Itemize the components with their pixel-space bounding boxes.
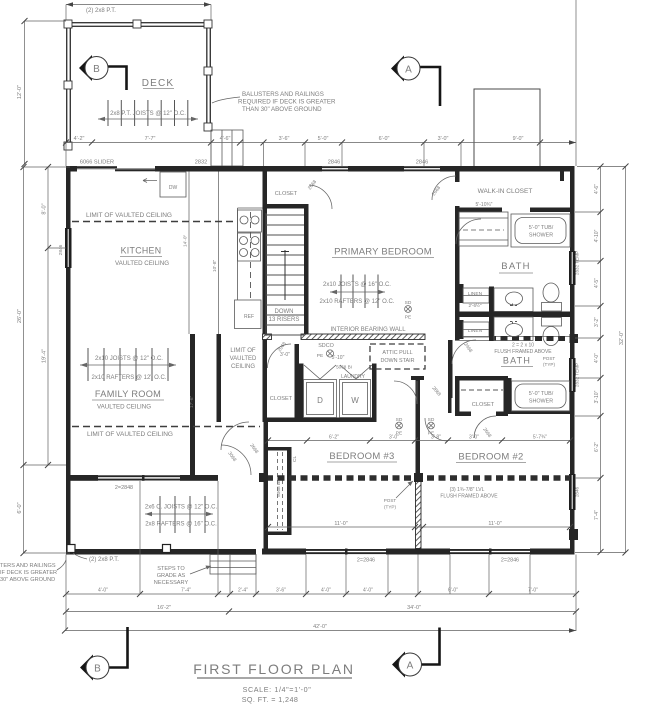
svg-text:(TYP): (TYP) [384, 505, 396, 510]
range [238, 233, 261, 261]
svg-text:INTERIOR BEARING WALL: INTERIOR BEARING WALL [330, 327, 406, 333]
svg-text:SCALE: 1/4"=1'-0": SCALE: 1/4"=1'-0" [243, 685, 312, 694]
bath hall lower wall [448, 340, 453, 398]
kitchen counter edge [237, 208, 239, 300]
svg-text:4'-6": 4'-6" [594, 184, 600, 194]
section marker B top [79, 55, 127, 90]
svg-text:VAULTED CEILING: VAULTED CEILING [115, 260, 169, 267]
svg-text:4'-0": 4'-0" [363, 588, 373, 594]
svg-text:BATH: BATH [503, 356, 531, 366]
svg-text:2 = 2 x 10: 2 = 2 x 10 [512, 343, 534, 349]
top dimension line y143 [66, 142, 576, 144]
svg-text:4'-10": 4'-10" [594, 229, 600, 242]
deck joist ticks [108, 100, 188, 126]
svg-text:DW: DW [169, 185, 178, 191]
porch bottom wall [66, 549, 256, 555]
svg-text:B: B [93, 64, 100, 75]
svg-text:PE: PE [428, 431, 434, 437]
svg-text:2'-6½": 2'-6½" [469, 302, 482, 308]
dryer [304, 380, 337, 418]
svg-text:NECESSARY: NECESSARY [154, 580, 189, 586]
svg-text:THAN 30" ABOVE GROUND: THAN 30" ABOVE GROUND [242, 106, 322, 113]
svg-text:5'-0": 5'-0" [318, 136, 329, 142]
svg-text:14'-0": 14'-0" [183, 234, 189, 247]
svg-text:BEDROOM #2: BEDROOM #2 [458, 452, 523, 463]
laundry/closet bottom wall [263, 418, 377, 423]
deck joist arrow [98, 118, 198, 120]
interior bearing wall (hatched) [301, 334, 425, 340]
svg-text:26'-0": 26'-0" [17, 309, 23, 323]
svg-text:(3) 1¾-7/8" LVL: (3) 1¾-7/8" LVL [450, 487, 485, 493]
linen closet 2 [459, 320, 464, 339]
svg-text:CL: CL [292, 456, 298, 462]
joist ticks [341, 275, 378, 309]
svg-text:DECK: DECK [142, 78, 175, 89]
svg-text:BEDROOM #3: BEDROOM #3 [329, 451, 394, 462]
stair left edge [265, 213, 267, 336]
entry closet left wall [263, 340, 268, 423]
svg-text:REQUIRED IF DECK IS GREATER: REQUIRED IF DECK IS GREATER [238, 99, 336, 106]
door arc hall to bedroom2 [425, 418, 448, 441]
door arc bedroom2 closet [474, 416, 496, 438]
deck left vertical dim 12'-0" [24, 21, 26, 164]
svg-text:30" ABOVE GROUND: 30" ABOVE GROUND [0, 577, 55, 583]
top extension lines [66, 130, 540, 166]
post at beam/right wall [570, 334, 579, 343]
closet door jambs top [560, 171, 564, 181]
svg-text:4'-0": 4'-0" [98, 588, 108, 594]
svg-text:3'-6": 3'-6" [279, 136, 290, 142]
svg-text:2x10 JOISTS @ 16" O.C.: 2x10 JOISTS @ 16" O.C. [323, 282, 391, 288]
svg-text:2x10 JOISTS @ 12" O.C.: 2x10 JOISTS @ 12" O.C. [95, 356, 163, 362]
svg-text:4'-5": 4'-5" [594, 278, 600, 288]
svg-text:POST: POST [543, 356, 556, 361]
kitchen interior dim line 1 [188, 172, 190, 335]
right-edge tall extension line [575, 0, 577, 166]
svg-text:POST: POST [384, 498, 397, 503]
svg-text:SDCO: SDCO [318, 343, 334, 349]
entry door arcs [221, 422, 249, 450]
svg-text:2x8 P.T. JOISTS @ 12" O.C.: 2x8 P.T. JOISTS @ 12" O.C. [110, 111, 186, 117]
bedroom3 left wall [264, 422, 269, 549]
svg-text:KITCHEN: KITCHEN [121, 246, 162, 256]
walk-in closet bottom wall [455, 208, 502, 213]
svg-text:5'-10¾": 5'-10¾" [476, 202, 493, 208]
right wall window 2832 (bath2) [569, 358, 576, 392]
svg-text:5'-0" TUB/: 5'-0" TUB/ [529, 391, 554, 397]
deck right wall (double line) [209, 22, 211, 130]
svg-text:FLUSH FRAMED ABOVE: FLUSH FRAMED ABOVE [494, 349, 552, 355]
stair down arrow [284, 250, 286, 300]
deck top wall (double line) [66, 22, 211, 24]
section marker A top [391, 56, 440, 107]
svg-text:2832 TEMP: 2832 TEMP [575, 251, 580, 275]
svg-text:2x10 RAFTERS @ 12" O.C.: 2x10 RAFTERS @ 12" O.C. [92, 375, 167, 381]
svg-text:BATH: BATH [501, 261, 530, 272]
svg-text:2=2846: 2=2846 [357, 558, 375, 564]
svg-text:2x6 C. JOISTS @ 12" O.C.: 2x6 C. JOISTS @ 12" O.C. [145, 505, 218, 511]
svg-text:FIRST FLOOR PLAN: FIRST FLOOR PLAN [193, 661, 355, 677]
joist ticks [88, 348, 168, 381]
svg-text:2=2846: 2=2846 [501, 558, 519, 564]
door arc bedroom to closet [432, 176, 456, 200]
svg-text:GRADE AS: GRADE AS [157, 573, 186, 579]
svg-text:34'-0": 34'-0" [407, 605, 421, 611]
svg-text:2846: 2846 [575, 486, 580, 497]
porch left wall [66, 481, 71, 552]
svg-text:SD: SD [405, 300, 412, 306]
svg-text:11'-0": 11'-0" [488, 521, 501, 527]
svg-text:16'-2": 16'-2" [157, 605, 171, 611]
svg-text:5'-0" TUB/: 5'-0" TUB/ [529, 225, 554, 231]
svg-text:7'-4": 7'-4" [594, 510, 600, 520]
svg-text:D: D [317, 396, 323, 405]
svg-text:6'-2": 6'-2" [594, 442, 600, 452]
svg-text:PE: PE [317, 353, 323, 359]
svg-text:VAULTED CEILING: VAULTED CEILING [97, 404, 151, 411]
svg-text:7'-0": 7'-0" [528, 588, 538, 594]
svg-text:CLOSET: CLOSET [270, 396, 293, 402]
svg-text:4'-2": 4'-2" [74, 136, 85, 142]
svg-text:19'-4": 19'-4" [42, 349, 48, 363]
svg-text:PRIMARY BEDROOM: PRIMARY BEDROOM [334, 247, 432, 258]
svg-text:2832: 2832 [195, 160, 207, 166]
right inner vertical dim [600, 167, 602, 553]
vanity 2 [494, 317, 533, 341]
svg-text:LIMIT OF: LIMIT OF [230, 348, 256, 354]
kitchen sink [238, 210, 262, 232]
left wall window 2846 [65, 228, 72, 268]
svg-text:REF: REF [244, 314, 254, 320]
svg-text:LIMIT OF VAULTED CEILING: LIMIT OF VAULTED CEILING [87, 431, 173, 438]
svg-text:TERS AND RAILINGS: TERS AND RAILINGS [0, 563, 56, 569]
tub2 enclosure wall [508, 378, 512, 414]
svg-text:LINEN: LINEN [468, 291, 483, 297]
limit of vaulted ceiling (kitchen) [72, 221, 237, 223]
door arc bedroom to bath1 [456, 219, 481, 244]
svg-text:2'-4": 2'-4" [238, 588, 248, 594]
window 2846 (primary) [322, 166, 348, 171]
limit of vaulted ceiling (family) [72, 426, 260, 428]
svg-text:PE: PE [396, 431, 402, 437]
svg-text:3'-0": 3'-0" [280, 352, 290, 358]
stair right wall [304, 208, 309, 339]
svg-text:3'-0": 3'-0" [438, 136, 449, 142]
svg-text:SHOWER: SHOWER [529, 233, 553, 239]
kitchen interior dim line 2 [218, 172, 220, 335]
family room windows 2=2848 [98, 475, 180, 480]
bottom extension lines [66, 481, 576, 631]
bearing wall stub left of stairs [263, 334, 272, 340]
joist arrow [330, 291, 385, 293]
svg-text:2846: 2846 [416, 160, 428, 166]
vanity 1 [494, 288, 533, 312]
svg-text:3'-2": 3'-2" [594, 317, 600, 327]
svg-text:5'-7¾": 5'-7¾" [533, 435, 547, 441]
svg-text:5'-10": 5'-10" [332, 355, 345, 361]
door arc hall to bedroom3 [394, 381, 417, 404]
svg-text:3'-0": 3'-0" [469, 435, 479, 441]
tub 1 [511, 214, 570, 247]
laundry bifold doors [304, 365, 372, 379]
svg-text:32'-0": 32'-0" [619, 331, 625, 345]
top wall segments [66, 166, 77, 172]
svg-text:11'-0": 11'-0" [334, 521, 347, 527]
upper cabinets dashed [250, 212, 252, 299]
svg-text:B: B [94, 664, 101, 675]
porch posts [67, 545, 75, 553]
svg-text:SQ. FT. = 1,248: SQ. FT. = 1,248 [242, 695, 299, 704]
deck left wall (double line) [66, 22, 68, 148]
stair treads [266, 215, 304, 335]
svg-text:A: A [405, 65, 412, 76]
toilet 2 [542, 318, 562, 327]
linen/vanity divider wall 1 [489, 287, 494, 312]
svg-text:PE: PE [405, 315, 411, 321]
svg-text:12'-0": 12'-0" [17, 85, 23, 99]
svg-text:7'-7": 7'-7" [145, 136, 156, 142]
svg-text:4'-0": 4'-0" [321, 588, 331, 594]
laundry left wall [299, 364, 304, 423]
right wall segments [570, 166, 575, 251]
svg-text:2846: 2846 [58, 244, 64, 255]
porch steps [210, 555, 256, 575]
svg-text:SHOWER: SHOWER [529, 399, 553, 405]
section marker A bottom [392, 628, 440, 678]
svg-text:42'-0": 42'-0" [313, 624, 327, 630]
svg-text:A: A [407, 661, 414, 672]
svg-text:7'-4": 7'-4" [181, 588, 191, 594]
svg-text:IF DECK IS GREATER: IF DECK IS GREATER [0, 570, 57, 576]
svg-text:6066 SLIDER: 6066 SLIDER [80, 160, 114, 166]
slider door 6066 in top wall [77, 166, 155, 171]
bottom dimension line C [65, 630, 576, 632]
tub 2 [512, 381, 570, 411]
bottom wall (bedrooms) segments [262, 549, 306, 555]
section marker B bottom [80, 627, 128, 681]
svg-text:4'-0": 4'-0" [594, 353, 600, 363]
bedroom3 windows 2=2846 [306, 549, 386, 554]
linen closet 1 [459, 284, 464, 303]
svg-text:ATTIC PULL: ATTIC PULL [382, 350, 412, 356]
left outer vertical dim [23, 167, 25, 553]
bedroom interior dim line [268, 526, 570, 528]
deck corner posts [64, 20, 212, 150]
porch joist ticks [160, 496, 205, 533]
svg-text:WALK-IN CLOSET: WALK-IN CLOSET [478, 188, 533, 195]
svg-text:17'-6": 17'-6" [189, 395, 195, 408]
svg-text:(2) 2x8 P.T.: (2) 2x8 P.T. [86, 8, 116, 14]
right wall window 2832 (bath1) [569, 251, 576, 285]
svg-text:CLOSET: CLOSET [275, 191, 298, 197]
bath divider thin wall [455, 336, 570, 338]
svg-text:2832 TEMP: 2832 TEMP [575, 363, 580, 387]
svg-text:VAULTED: VAULTED [230, 356, 257, 362]
bedroom divider wall lower (hatched) [416, 481, 422, 549]
svg-text:10'-8": 10'-8" [212, 259, 218, 272]
toilet 1 [543, 283, 559, 302]
svg-text:3'-10": 3'-10" [594, 390, 600, 403]
bedroom3 closet wall [287, 447, 292, 535]
svg-text:LIMIT OF VAULTED CEILING: LIMIT OF VAULTED CEILING [86, 212, 172, 219]
family room right wall [190, 334, 195, 475]
linen/vanity divider wall 2 [489, 317, 494, 341]
laundry right wall [372, 364, 377, 423]
post at beam mid [414, 473, 423, 482]
stair closet bottom wall [263, 204, 309, 209]
bedroom2 closet rod (dashed) [461, 389, 503, 391]
svg-text:8'-0": 8'-0" [42, 203, 48, 214]
svg-text:STEPS TO: STEPS TO [157, 566, 185, 572]
svg-text:DOWN: DOWN [275, 309, 294, 315]
flush framed beam LVL (dashed, over bedrooms) [266, 475, 570, 481]
svg-text:FLUSH FRAMED ABOVE: FLUSH FRAMED ABOVE [440, 494, 498, 500]
bedroom2 closet walls [455, 376, 508, 381]
deck top dimension line [66, 4, 211, 6]
deck steps to grade (right of deck) [211, 130, 243, 166]
attic pull down stair (dashed) [370, 344, 425, 369]
svg-text:4'-6": 4'-6" [220, 136, 231, 142]
post at beam right [569, 529, 578, 540]
window 2846 (primary right) [404, 166, 440, 171]
svg-text:5068 BI: 5068 BI [276, 480, 282, 497]
family room bottom wall segments [66, 475, 98, 481]
closet door arc (primary bedroom entry) [309, 185, 332, 209]
svg-text:CEILING: CEILING [231, 364, 255, 370]
washer [340, 380, 371, 418]
svg-text:9'-0": 9'-0" [513, 136, 524, 142]
bedroom3 closet bifold (dashed) [277, 452, 279, 530]
bottom dimension line A [66, 593, 576, 595]
refrigerator [235, 300, 262, 329]
svg-text:6'-0": 6'-0" [379, 136, 390, 142]
DW box [160, 172, 186, 197]
chimney rectangle top-right [474, 89, 540, 167]
left inner vertical dim [47, 167, 49, 465]
right outer vertical dim 32'-0" [625, 167, 627, 553]
interior dim line (hall/bedrooms) [268, 440, 570, 442]
entry closet right wall [295, 344, 300, 422]
svg-text:13 RISERS: 13 RISERS [269, 317, 300, 323]
svg-text:2=2848: 2=2848 [115, 485, 133, 491]
svg-text:2x10 RAFTERS @ 12" O.C.: 2x10 RAFTERS @ 12" O.C. [320, 299, 395, 305]
closet built-in [459, 212, 508, 246]
svg-text:6'-0": 6'-0" [17, 502, 23, 513]
hall wall left of entry [217, 334, 222, 422]
kitchen right wall / stair left wall [263, 171, 268, 334]
svg-text:CLOSET: CLOSET [472, 402, 495, 408]
svg-text:6'-0": 6'-0" [448, 588, 458, 594]
walk-in closet / hall wall (vertical) [455, 171, 460, 182]
svg-text:(TYP): (TYP) [543, 362, 555, 367]
post at beam left [259, 473, 268, 482]
svg-text:(2) 2x8 P.T.: (2) 2x8 P.T. [89, 557, 119, 563]
svg-text:W: W [351, 396, 359, 405]
door arc hall to bath2 [452, 340, 476, 364]
svg-text:6'-2": 6'-2" [329, 435, 339, 441]
bedroom divider wall with T-cap [411, 376, 424, 380]
left wall lower [66, 268, 71, 481]
bath divider wall [455, 312, 570, 318]
svg-text:2846: 2846 [328, 160, 340, 166]
svg-text:LINEN: LINEN [468, 328, 483, 334]
left wall upper [66, 166, 71, 228]
svg-text:5068 BI: 5068 BI [336, 365, 352, 370]
right wall window 2846 (bedroom2) [569, 474, 576, 510]
svg-text:DOWN STAIR: DOWN STAIR [380, 358, 414, 364]
svg-text:FAMILY ROOM: FAMILY ROOM [95, 389, 161, 399]
flush beam over bath2 (dashed) [489, 336, 570, 341]
bedroom2 windows 2=2846 [450, 549, 530, 554]
svg-text:BALUSTERS AND RAILINGS: BALUSTERS AND RAILINGS [242, 91, 324, 98]
svg-text:2x8 RAFTERS @ 16" O.C.: 2x8 RAFTERS @ 16" O.C. [145, 522, 217, 528]
bottom dimension line B [66, 611, 576, 613]
joist arrow [80, 364, 176, 366]
svg-text:3'-6": 3'-6" [276, 588, 286, 594]
